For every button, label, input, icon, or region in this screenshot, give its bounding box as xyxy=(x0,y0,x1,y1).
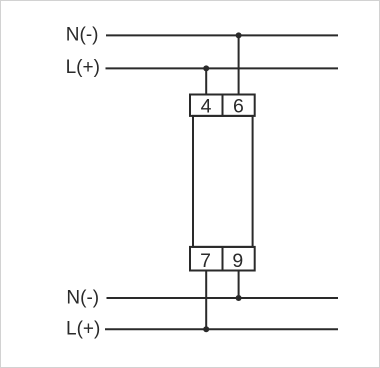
svg-text:4: 4 xyxy=(201,96,212,118)
svg-text:7: 7 xyxy=(200,250,211,272)
svg-text:9: 9 xyxy=(232,250,243,272)
svg-text:N(-): N(-) xyxy=(66,287,99,308)
svg-text:N(-): N(-) xyxy=(66,24,99,45)
svg-text:L(+): L(+) xyxy=(66,57,100,78)
svg-text:L(+): L(+) xyxy=(66,319,100,340)
svg-text:6: 6 xyxy=(233,96,244,118)
